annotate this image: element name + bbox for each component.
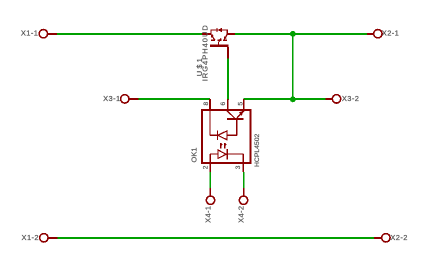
light arrow 2 bbox=[224, 143, 226, 148]
svg-text:X4-1: X4-1 bbox=[203, 206, 212, 223]
connector X2-1 bbox=[367, 28, 399, 38]
wire X3-1 to OK1 pin8 bbox=[139, 98, 211, 100]
collector diagonal bbox=[227, 111, 235, 118]
photodiode anode line bbox=[227, 134, 236, 136]
wire vertical junction to row2 bbox=[292, 33, 294, 100]
svg-text:5: 5 bbox=[238, 102, 245, 106]
svg-text:6: 6 bbox=[220, 102, 227, 106]
gate bar bbox=[210, 45, 229, 47]
wire X1-2 to X2-2 bbox=[58, 237, 374, 239]
pin 8 internal vertical bbox=[209, 109, 211, 135]
LED cathode line bbox=[227, 153, 243, 155]
emitter lead bbox=[227, 33, 234, 35]
connector X1-2 bbox=[22, 233, 58, 242]
wire U$1 gate to OK1 pin6 bbox=[227, 58, 229, 100]
svg-text:8: 8 bbox=[203, 102, 210, 106]
optocoupler OK1 HCPL4502 bbox=[202, 99, 251, 172]
diode bypass top line bbox=[210, 29, 227, 31]
svg-text:X2-2: X2-2 bbox=[390, 233, 407, 242]
LED anode line bbox=[210, 153, 218, 155]
box bbox=[202, 110, 251, 163]
svg-text:OK1: OK1 bbox=[190, 147, 199, 162]
pin 6 stub bbox=[227, 99, 229, 110]
diode bypass left stub bbox=[210, 30, 212, 34]
channel dash middle bbox=[217, 39, 221, 41]
transistor base bar bbox=[227, 118, 244, 120]
collector diagonal bbox=[212, 35, 215, 40]
channel dash left bbox=[211, 39, 215, 41]
LED cathode bar bbox=[226, 149, 228, 160]
collector lead bbox=[202, 33, 212, 35]
wire U$1 emitter to X2-1 bbox=[235, 33, 367, 35]
connector X3-2 bbox=[325, 94, 359, 103]
connector X4-1 bbox=[203, 188, 214, 223]
pin 2 internal vertical bbox=[209, 154, 211, 163]
pin 8 internal horizontal bbox=[210, 134, 217, 136]
wire X1-1 to U$1 collector bbox=[57, 33, 202, 35]
anode to base vertical bbox=[236, 120, 238, 135]
svg-text:HCPL4502: HCPL4502 bbox=[254, 134, 261, 167]
svg-text:X4-2: X4-2 bbox=[236, 206, 245, 223]
pin 5 stub bbox=[243, 99, 245, 110]
pin 2 stub bbox=[209, 163, 211, 172]
body diagonal bbox=[219, 39, 222, 42]
IGBT U$1 IRG4PH40UD bbox=[202, 28, 235, 59]
connector X1-1 bbox=[21, 28, 58, 38]
channel dash right bbox=[223, 39, 227, 41]
svg-text:2: 2 bbox=[203, 165, 210, 169]
pin 3 internal vertical bbox=[242, 154, 244, 163]
emitter diagonal bbox=[237, 111, 244, 118]
photodiode triangle bbox=[218, 131, 227, 140]
diode bypass right stub bbox=[226, 30, 228, 34]
collector arrowhead bbox=[210, 34, 213, 38]
connector X3-1 bbox=[103, 94, 138, 103]
svg-text:IRG4PH40UD: IRG4PH40UD bbox=[201, 24, 210, 81]
connector X2-2 bbox=[374, 233, 408, 242]
emitter arrowhead bbox=[224, 36, 227, 40]
connector X4-2 bbox=[236, 188, 247, 223]
svg-text:X1-1: X1-1 bbox=[21, 28, 38, 37]
svg-text:3: 3 bbox=[235, 165, 242, 169]
wire OK1 pin2 to X4-1 bbox=[209, 172, 211, 188]
pin 3 stub bbox=[242, 163, 244, 172]
junction dot top bbox=[290, 31, 296, 37]
wire OK1 pin5 to X3-2 bbox=[244, 98, 326, 100]
emitter arrowhead barb 1 bbox=[239, 112, 242, 114]
LED triangle bbox=[218, 150, 226, 158]
emitter diagonal bbox=[225, 34, 228, 38]
wire OK1 pin3 to X4-2 bbox=[243, 172, 245, 188]
diode D cathode bar bbox=[216, 28, 218, 32]
gate lead bbox=[227, 47, 229, 58]
svg-text:X2-1: X2-1 bbox=[382, 28, 399, 37]
emitter arrowhead barb 2 bbox=[241, 112, 242, 116]
svg-text:X3-2: X3-2 bbox=[342, 94, 359, 103]
photodiode cathode bar bbox=[216, 130, 218, 140]
light arrow 1 bbox=[220, 143, 222, 148]
body stub bbox=[218, 42, 220, 45]
pin 8 stub bbox=[209, 99, 211, 110]
svg-text:X3-1: X3-1 bbox=[103, 94, 120, 103]
junction dot bottom bbox=[290, 97, 296, 103]
diode D triangle bbox=[217, 28, 222, 33]
svg-text:X1-2: X1-2 bbox=[22, 233, 39, 242]
